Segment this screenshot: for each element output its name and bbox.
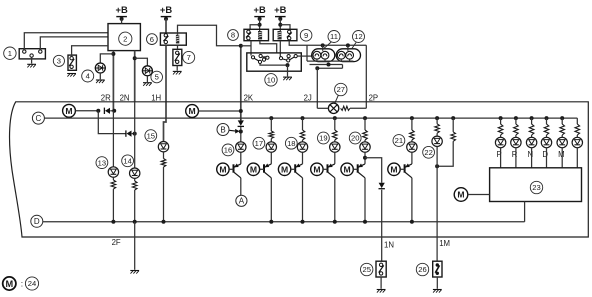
resistor position D [544,118,549,137]
wire switch 25 to ground [380,277,382,289]
inhibitor switch 25 [376,261,386,277]
svg-text:21: 21 [395,136,403,145]
junction dot position D on line C [545,116,549,120]
wire switch 3 to box 2 [72,46,108,57]
resistor under LED 15 [161,152,166,222]
wire +B into relay 9 with split [278,19,290,31]
relay box 9 [273,29,297,40]
svg-text:1N: 1N [384,240,394,249]
svg-text:2K: 2K [244,93,254,102]
wire M1 to diode [75,110,98,112]
control unit box 2 [108,24,140,51]
svg-text:27: 27 [337,85,345,94]
junction dot position P on line C [499,116,503,120]
svg-text:M: M [65,106,72,116]
wire M4 to box 23 [468,194,490,196]
junction dot on 2N wire [133,132,137,136]
relay box 6 [160,33,186,45]
svg-text:M: M [558,150,565,159]
wire 1H from relay 6 down to pin 1H [164,45,167,141]
label 22 [423,146,435,158]
junction dot line D x271 [269,220,273,224]
wire line C [44,117,577,119]
junction dot position M on line C [560,116,564,120]
label 25 [361,263,373,275]
LED 21 [407,142,417,152]
node B circle with arrow [217,124,240,136]
junction dot position N on line C [530,116,534,120]
wire position R to box 23 [515,148,517,168]
label 16 [222,144,234,156]
+B supply above box 2 [115,4,127,21]
pin label 2F [112,238,121,247]
wire chain 22b joins chain 22 [437,141,453,166]
relay 9 switch [287,30,292,40]
transistor Q21 [388,152,412,177]
resistor chain 21 [410,118,415,142]
svg-text:M: M [281,165,288,175]
junction dot branch to sensor 4 [111,52,115,56]
wire Q18 emitter to line D [302,178,304,222]
series diode on 2K line [238,118,244,142]
svg-text::: : [21,279,23,289]
position letter P [497,150,502,159]
pin label 2P [369,93,379,102]
wire 2P side drop to sensor row [365,45,367,108]
svg-text:R: R [512,150,518,159]
svg-text:11: 11 [330,32,338,41]
wire 2N from box 2 down to pin 2N [134,51,136,102]
pin label 1H [151,93,161,102]
legend motor symbol M [3,277,16,290]
node D circle [31,215,43,227]
LED 17 [266,142,276,152]
sensor 5 (diode in circle) [142,66,152,76]
transistor Q17 [247,152,271,177]
diode D1 (points left) [104,108,114,114]
svg-text:3: 3 [57,57,61,66]
svg-text:D: D [542,150,548,159]
junction dot chains 22 join [435,147,439,169]
wire relay 6 coil to node 2K [178,25,241,46]
wire Q17 emitter to line D [270,178,272,222]
svg-text:15: 15 [147,131,155,140]
wire to sensor 5 [135,58,148,65]
junction dot [96,109,100,113]
junction dot chain 18 on line C [301,116,305,120]
wire sensor 5 to ground [146,76,148,82]
LED position R [511,137,521,147]
pin label 2K [244,93,254,102]
LED 20 [360,142,370,152]
svg-text:2R: 2R [101,93,111,102]
wire solenoid supply left drop [306,45,308,61]
position letter D [542,150,548,159]
resistor chain 17 [269,118,274,142]
svg-text:9: 9 [304,31,308,40]
svg-text:C: C [36,114,42,123]
wire Q20 emitter to line D [364,178,366,222]
transistor Q16 [217,152,241,177]
relay 6 coil [176,35,179,44]
wire 1N down through pin 1N [381,190,383,262]
svg-text:B: B [220,125,225,134]
svg-text:2J: 2J [304,93,312,102]
resistor chain 22b [451,118,456,141]
LED 22 [432,136,442,146]
wire line D [43,221,525,223]
box 10 internal common wire [260,63,290,67]
resistor position M [560,118,565,137]
junction dot line D x411 [410,220,414,224]
resistor chain 22 [435,118,440,136]
svg-text:10: 10 [267,76,275,85]
resistor under LED 14 [132,178,137,221]
resistor last chain [575,118,580,137]
solenoid pair 12 [336,49,360,62]
junction dot node 2K [239,44,243,48]
label 13 [96,157,108,169]
svg-text:4: 4 [86,72,90,81]
wire relay 6 coil down to switch 7 [177,45,179,49]
legend label 24 [25,277,38,290]
solenoid lower bus 1 [307,59,353,61]
kickdown switch 26 [433,261,442,277]
wire chain 20 branch to diode [365,158,382,183]
transistor Q18 [278,152,302,177]
svg-text:M: M [344,165,351,175]
ground under sensor 5 [143,83,152,86]
label 6 [147,34,158,45]
svg-text:+B: +B [115,4,127,15]
switch 7 [173,49,182,65]
wire relay 8 switch into box 10 [250,41,252,56]
wire node 2K down to pin 2K [240,46,242,121]
svg-text:A: A [239,197,245,206]
wire relay 8 coil into box 10 [260,41,277,53]
svg-text:24: 24 [28,279,36,288]
svg-text:1: 1 [8,49,12,58]
junction dot line D x302 [301,220,305,224]
label 20 [349,132,361,144]
transistor Q19 [311,152,335,177]
label 8 [228,30,239,41]
resistor chain 20 [363,118,368,142]
LED 18 [297,142,307,152]
wire sensor row right [350,107,366,109]
svg-text:12: 12 [354,32,362,41]
branch dot chain 20 to 1N [363,156,367,160]
sensor 4 (diode in circle) [95,63,105,73]
wire to sensor 4 [100,54,113,63]
LED 13 [108,167,118,177]
label 9 [300,29,312,41]
LED last chain [572,137,582,147]
wire 2N continues to LED 14 [134,102,136,168]
box 10 left contact set [251,54,269,63]
relay 6 switch [163,34,168,44]
svg-text:M: M [313,165,320,175]
wire sensor row left [317,107,328,109]
diode D2 (points left) [126,130,135,136]
ground under sensor 4 [96,80,105,83]
node C circle [32,112,44,124]
junction dot line D x334 [333,220,337,224]
LED 14 [130,168,140,178]
diode on 1N wire [379,183,385,189]
junction dot feeding solenoid 11 [321,43,325,50]
junction dot B [239,130,243,134]
svg-text:N: N [528,150,534,159]
label 15 [145,130,157,142]
solenoid lower bus 2 [310,63,343,67]
label 10 [265,74,277,86]
svg-text:M: M [5,279,13,289]
svg-text:18: 18 [287,139,295,148]
pin label 1N [384,240,394,249]
label 26 [416,263,428,275]
pin label 1M [439,239,450,248]
resistor under LED 13 [111,177,116,222]
junction dot feeding solenoid 12 [346,43,350,50]
wire 2F to ground [134,222,136,270]
junction dot chain 22b on line C [451,116,455,120]
svg-text:M: M [390,165,397,175]
relay 8 switch [246,30,251,40]
wire box1 middle pin to ground [31,57,33,63]
label 7 [183,51,195,63]
LED 19 [330,142,340,152]
ground 2F [130,271,139,274]
wire +B to box 2 [121,19,123,24]
wire position M to box 23 [561,148,563,168]
label 2 [119,32,132,45]
junction dot line D x134 [133,220,137,224]
wire Q21 emitter to line D [411,178,413,222]
junction dot chain 19 on line C [333,116,337,120]
wire relay 9 coil into box 10 [279,41,281,57]
label 18 [285,137,297,149]
label 3 [53,55,64,66]
svg-text:14: 14 [123,157,131,166]
solenoid pair 11 [312,49,335,62]
+B supply above relay 8 [253,4,265,21]
motor driver M1 [63,104,76,117]
label 27 with leader [335,83,347,103]
junction dot line D x365 [363,220,367,224]
svg-text:25: 25 [362,265,370,274]
ground under box 1 [27,64,36,67]
svg-text:M: M [457,190,464,200]
svg-text:5: 5 [155,73,159,82]
resistor position N [529,118,534,137]
temperature sensor 27 (circle with X) [328,103,338,113]
svg-text:M: M [219,165,226,175]
branch wire to diode D2 [98,111,126,134]
svg-text:1M: 1M [439,239,450,248]
wire M2 to 2K line [199,109,243,113]
svg-text:22: 22 [424,148,432,157]
wire box 23 to line D [524,202,526,222]
svg-text:2P: 2P [369,93,379,102]
solenoid lower bus 3 [315,65,342,71]
pin label 2J [304,93,312,102]
wire 2J drop to sensor row [316,68,318,108]
LED position M [557,137,567,147]
svg-text:2N: 2N [120,93,130,102]
wire box1 left pin to control unit 2 [24,33,108,50]
pin label 2R [101,93,111,102]
wire node 2K to box 10 [241,45,251,47]
position letter N [528,150,534,159]
svg-text:M: M [250,165,257,175]
wire sensor 4 to ground [99,73,101,79]
svg-text:+B: +B [274,4,286,15]
resistor chain 19 [333,118,338,142]
+B supply above relay 6 [160,4,172,21]
label 11 with leader [323,31,341,50]
wire 1M down through pin 1M [436,166,438,261]
LED position N [526,137,536,147]
LED 15 [158,142,168,152]
relay 9 coil [278,31,282,39]
wire +B into relay 6 [165,19,167,33]
svg-text:23: 23 [532,183,540,192]
label 12 with leader [352,31,365,49]
wire position N to box 23 [531,148,533,168]
wire relay 9 switch to solenoid box [289,41,366,46]
LED position D [541,137,551,147]
ground under box 10 [283,77,292,80]
label 1 [4,47,16,59]
svg-text:+B: +B [160,4,172,15]
resistor position R [514,118,519,137]
junction dot line D x163 [162,220,166,224]
motor driver M4 [454,188,468,202]
svg-text:20: 20 [351,134,359,143]
svg-text:26: 26 [418,265,426,274]
label 19 [318,132,330,144]
label 5 [151,71,163,83]
node A circle [236,195,247,206]
wire position P to box 23 [500,148,502,168]
svg-text:19: 19 [319,134,327,143]
wire Q19 emitter to line D [334,178,336,222]
junction dot position R on line C [514,116,518,120]
junction dot on 2R wire [112,109,116,113]
label 4 [82,70,94,82]
connector box 1 with three pins [19,49,45,59]
svg-text:+B: +B [253,4,265,15]
wire last chain to box 23 [576,148,578,168]
junction dot chain 21 on line C [410,116,414,120]
svg-text:2: 2 [123,34,127,43]
svg-text:1H: 1H [151,93,161,102]
label 21 [393,135,405,147]
transistor Q20 [341,152,365,177]
+B supply above relay 9 [274,4,286,21]
svg-text:16: 16 [224,146,232,155]
wire box 10 output to solenoids [297,55,312,57]
svg-text:7: 7 [187,53,191,62]
label 23 [530,181,542,193]
svg-text:13: 13 [98,158,106,167]
wire switch 7 to ground [176,66,178,71]
junction dot chain 17 on line C [269,116,273,120]
wire Q16 emitter to node A [240,178,242,196]
label 17 [253,137,265,149]
junction dot branch to sensor 5 [133,56,137,60]
svg-text:6: 6 [150,35,154,44]
switch 3 [68,55,76,70]
box 10 right contact set [279,55,297,63]
resistor chain 18 [300,118,305,142]
ground under switch 3 [67,74,76,77]
wire box 10 common to ground [287,65,289,76]
junction dot chain 20 on line C [363,116,367,120]
svg-text:8: 8 [231,31,235,40]
LED position P [495,137,505,147]
transmission control unit box (torn left edge) [10,102,589,237]
wire 2R from box 2 down to pin 2R [112,51,114,111]
svg-text:D: D [34,217,40,226]
sensor 27 series resistor [341,106,350,110]
pin label 2N [120,93,130,102]
LED 16 [236,142,246,152]
wire 2R continues to LED 13 [112,111,114,167]
position letter R [512,150,518,159]
wire switch 26 to ground [436,277,438,289]
svg-text:M: M [189,106,196,116]
switch box 10 [247,53,301,71]
junction dot line D x113 [111,220,115,224]
svg-text:2F: 2F [112,238,121,247]
ground under switch 7 [173,71,182,74]
label 14 [122,155,134,167]
legend colon [21,279,23,289]
resistor position P [498,118,503,137]
relay box 8 [244,29,269,40]
position letter M [558,150,565,159]
ground under switch 25 [377,290,386,293]
junction dot chain 22 on line C [435,116,439,120]
ground under switch 26 [433,290,442,293]
wire box1 right pin to control unit 2 [40,37,108,50]
decoder box 23 [490,168,582,202]
relay 8 coil [258,31,262,39]
wire +B into relay 8 with split [250,19,262,31]
wire position D to box 23 [546,148,548,168]
svg-text:17: 17 [255,139,263,148]
motor driver M2 [186,105,199,118]
